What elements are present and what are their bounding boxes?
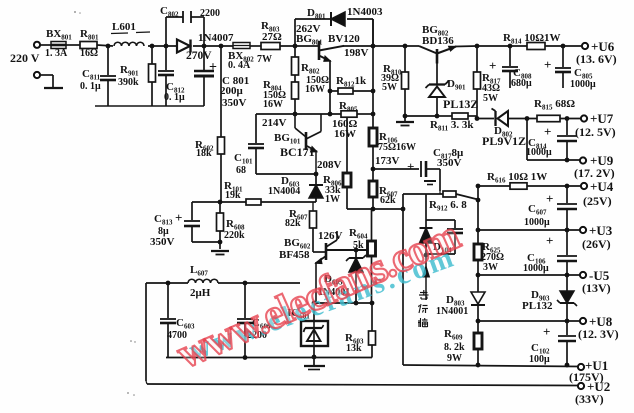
svg-text:62k: 62k [380, 195, 396, 206]
svg-text:1N4004: 1N4004 [268, 186, 300, 197]
svg-text:+: + [544, 57, 551, 72]
svg-text:0. 4A: 0. 4A [228, 60, 251, 71]
svg-text:3W: 3W [483, 262, 498, 273]
svg-text:350V: 350V [222, 97, 247, 109]
svg-text:1. 3A: 1. 3A [45, 48, 68, 59]
svg-text:C101: C101 [234, 152, 253, 166]
svg-text:C811: C811 [82, 68, 101, 82]
svg-text:(12. 5V): (12. 5V) [575, 125, 616, 139]
svg-text:PL132: PL132 [522, 300, 553, 312]
svg-text:680μ: 680μ [511, 78, 532, 89]
svg-text:0. 1μ: 0. 1μ [80, 81, 101, 92]
svg-text:R815 68Ω: R815 68Ω [534, 98, 575, 112]
svg-text:16W: 16W [263, 99, 283, 110]
svg-text:1N4003: 1N4003 [347, 6, 383, 18]
svg-text:75Ω16W: 75Ω16W [378, 142, 416, 153]
svg-text:0. 1μ: 0. 1μ [164, 92, 185, 103]
svg-text:200μ: 200μ [220, 85, 244, 97]
svg-text:R912 6. 8: R912 6. 8 [429, 199, 467, 213]
svg-text:+U7: +U7 [590, 111, 614, 126]
svg-text:C802: C802 [160, 5, 179, 19]
svg-text:5W: 5W [382, 82, 397, 93]
svg-text:5W: 5W [483, 93, 498, 104]
svg-text:(17. 2V): (17. 2V) [574, 166, 615, 180]
svg-text:214V: 214V [262, 117, 287, 129]
svg-text:D901: D901 [447, 78, 466, 92]
svg-text:(33V): (33V) [575, 392, 604, 406]
svg-text:350V: 350V [150, 236, 175, 248]
svg-text:+: + [489, 58, 496, 73]
svg-text:+: + [546, 233, 553, 248]
svg-text:220 V: 220 V [10, 51, 40, 65]
svg-text:7W: 7W [257, 54, 272, 65]
svg-text:(26V): (26V) [582, 237, 611, 251]
svg-text:19k: 19k [225, 190, 241, 201]
svg-text:+U3: +U3 [589, 223, 613, 238]
svg-text:1000μ: 1000μ [523, 263, 549, 274]
svg-text:R811 3. 3k: R811 3. 3k [430, 119, 474, 133]
svg-text:R805: R805 [339, 100, 358, 114]
svg-text:C607: C607 [528, 203, 547, 217]
svg-text:(13. 6V): (13. 6V) [576, 52, 617, 66]
svg-text:(13V): (13V) [582, 281, 611, 295]
svg-text:(25V): (25V) [583, 194, 612, 208]
svg-text:C813: C813 [154, 213, 173, 227]
svg-text:1000μ: 1000μ [526, 147, 552, 158]
svg-text:L607: L607 [190, 264, 208, 278]
svg-text:BV120: BV120 [328, 33, 360, 45]
svg-text:1000μ: 1000μ [570, 79, 596, 90]
svg-text:R604: R604 [349, 227, 368, 241]
svg-text:27Ω: 27Ω [262, 31, 282, 43]
svg-text:208V: 208V [317, 159, 342, 171]
svg-text:16Ω: 16Ω [80, 48, 98, 59]
svg-text:BF458: BF458 [279, 249, 310, 261]
svg-text:+: + [209, 60, 217, 75]
svg-text:BX801: BX801 [46, 28, 72, 42]
svg-text:R616 10Ω 1W: R616 10Ω 1W [487, 171, 547, 185]
svg-text:+: + [546, 191, 553, 206]
svg-text:1000μ: 1000μ [524, 217, 550, 228]
svg-text:220k: 220k [224, 230, 245, 241]
svg-text:100μ: 100μ [529, 354, 550, 365]
svg-text:R801: R801 [80, 28, 99, 42]
svg-text:PL13Z: PL13Z [443, 97, 478, 111]
svg-text:1N4001: 1N4001 [436, 306, 468, 317]
svg-text:350V: 350V [437, 157, 462, 169]
svg-text:+U4: +U4 [590, 179, 614, 194]
svg-text:+: + [175, 210, 182, 225]
svg-text:9W: 9W [447, 353, 462, 364]
svg-text:2μH: 2μH [190, 287, 211, 299]
svg-text:18k: 18k [196, 148, 212, 159]
svg-text:8. 2k: 8. 2k [444, 342, 465, 353]
svg-text:16W: 16W [334, 128, 356, 140]
svg-text:1W: 1W [325, 194, 340, 205]
svg-text:R8121k: R8121k [336, 75, 367, 89]
svg-text:R814 10Ω1W: R814 10Ω1W [503, 32, 561, 46]
svg-text:D801: D801 [307, 7, 326, 21]
svg-text:+: + [407, 159, 414, 174]
svg-text:L601: L601 [112, 21, 136, 33]
svg-text:+: + [544, 124, 551, 139]
svg-text:68: 68 [236, 165, 246, 176]
svg-text:(12. 3V): (12. 3V) [578, 327, 619, 341]
svg-text:173V: 173V [375, 155, 400, 167]
svg-text:126V: 126V [318, 230, 343, 242]
svg-text:BD136: BD136 [422, 35, 454, 47]
svg-text:198V: 198V [344, 47, 369, 59]
svg-text:82k: 82k [285, 218, 301, 229]
svg-text:390k: 390k [118, 77, 139, 88]
svg-text:1N4007: 1N4007 [198, 32, 234, 44]
svg-text:+: + [543, 324, 550, 339]
svg-text:R609: R609 [444, 328, 463, 342]
svg-text:PL9V1Z: PL9V1Z [482, 134, 526, 148]
svg-text:13k: 13k [346, 343, 362, 354]
svg-text:R802: R802 [301, 62, 320, 76]
svg-text:2200: 2200 [200, 8, 220, 19]
svg-text:BG101: BG101 [274, 132, 301, 146]
svg-text:R901: R901 [120, 64, 139, 78]
svg-text:16W: 16W [305, 84, 325, 95]
